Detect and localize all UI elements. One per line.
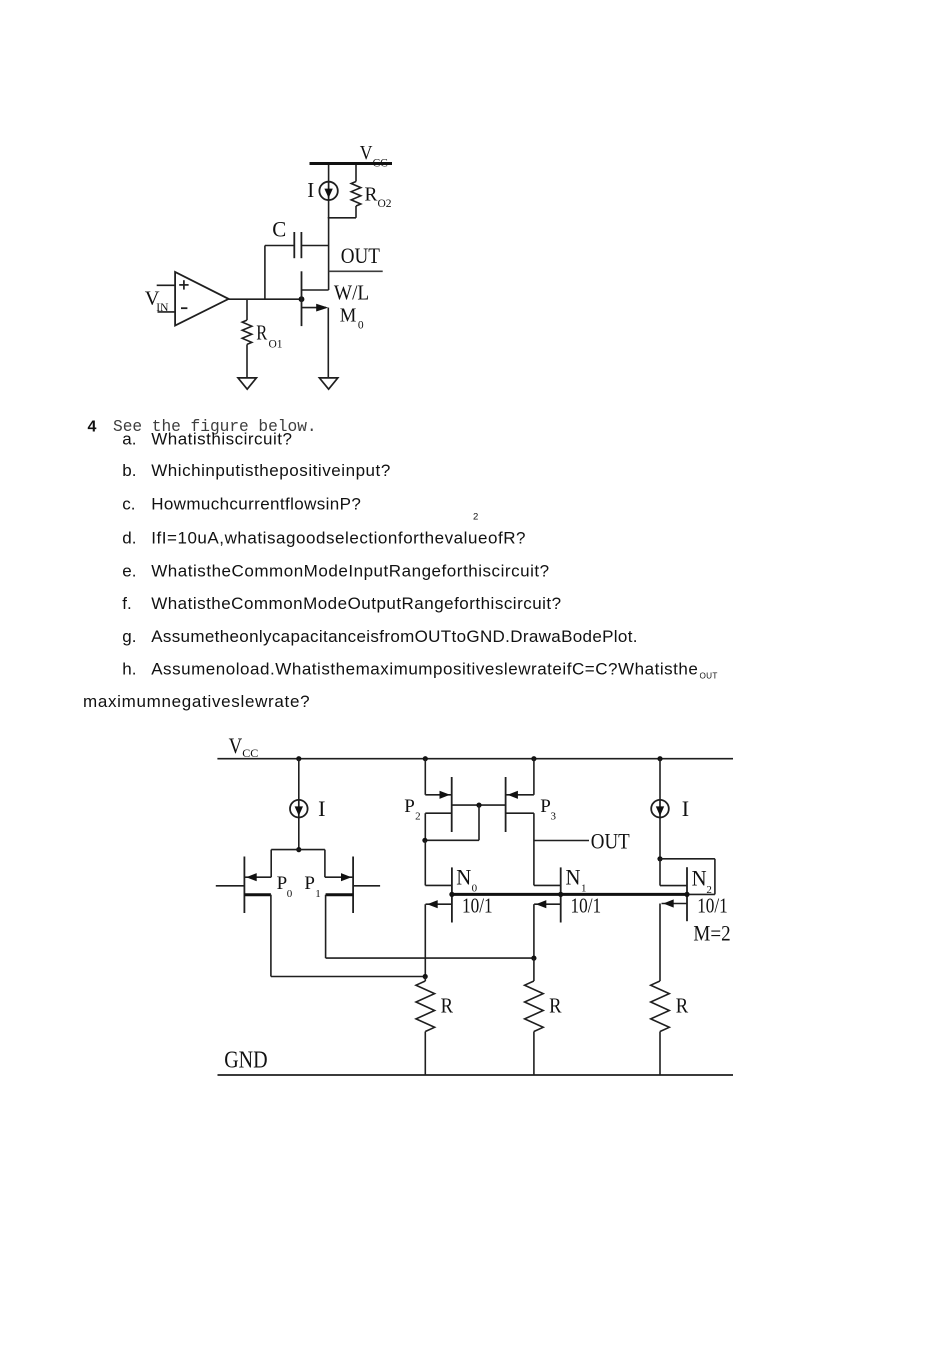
ground (below RO1): [238, 378, 256, 389]
svg-text:h.: h.: [122, 659, 136, 678]
transistor P1 channel bar: [352, 857, 354, 914]
svg-text:P: P: [540, 796, 551, 817]
node R1 top: [423, 974, 428, 979]
transistor M0 drain lead: [302, 289, 329, 291]
wire P2 P3 gate line: [452, 804, 506, 806]
op-amp U1 triangle: [175, 272, 229, 326]
transistor P0 drain bar: [244, 893, 271, 896]
wire op-amp output to gate of M0: [229, 298, 302, 300]
wire OUT (top circuit): [329, 270, 383, 272]
wire inverting input: [158, 311, 176, 313]
svg-text:0: 0: [358, 319, 364, 331]
current source I (left, bottom circuit): [290, 800, 308, 818]
resistor RO2: [351, 182, 361, 207]
svg-text:O2: O2: [378, 198, 392, 210]
transistor N0 channel bar: [451, 867, 453, 922]
svg-text:0: 0: [472, 883, 478, 895]
svg-text:WhatistheCommonModeOutputRange: WhatistheCommonModeOutputRangeforthiscir…: [151, 594, 561, 613]
svg-text:IfI=10uA,whatisagoodselectionf: IfI=10uA,whatisagoodselectionforthevalue…: [151, 528, 526, 547]
svg-text:Whatisthiscircuit?: Whatisthiscircuit?: [151, 429, 292, 448]
node on VCC rail above P3: [531, 756, 536, 761]
transistor N0 source lead with arrow: [426, 903, 452, 905]
svg-text:2: 2: [415, 811, 421, 823]
node gate tie of P2 P3: [476, 803, 481, 808]
wire N2 gate loop right: [714, 859, 716, 895]
transistor N1 source lead with arrow: [534, 903, 561, 905]
transistor P3 channel bar: [505, 777, 507, 832]
svg-text:I: I: [307, 178, 314, 202]
wire rail to left current source: [298, 759, 300, 801]
wire N1 drain lead: [534, 884, 561, 886]
resistor R2: [525, 981, 544, 1032]
node on VCC rail above left current source: [296, 756, 301, 761]
svg-text:R: R: [441, 994, 453, 1018]
transistor P3 drain lead: [506, 812, 534, 814]
svg-text:R: R: [676, 994, 688, 1018]
svg-text:R: R: [549, 994, 561, 1018]
svg-text:P: P: [404, 796, 415, 817]
svg-text:0: 0: [287, 888, 293, 900]
svg-text:C: C: [272, 217, 286, 242]
wire N2 drain lead: [660, 885, 687, 887]
op-amp plus input marker: [179, 284, 188, 286]
node N2 drain: [657, 856, 662, 861]
svg-text:M=2: M=2: [693, 921, 730, 946]
svg-text:a.: a.: [122, 429, 136, 448]
current source I (right, bottom circuit): [651, 800, 669, 818]
wire M0 source to ground: [327, 308, 329, 378]
resistor R3: [651, 981, 670, 1032]
wire tail to P0 source: [270, 850, 272, 878]
svg-text:HowmuchcurrentflowsinP?: HowmuchcurrentflowsinP?: [151, 495, 361, 514]
wire node X down to drain of M0: [328, 217, 330, 290]
svg-text:Whichinputisthepositiveinput?: Whichinputisthepositiveinput?: [151, 461, 391, 480]
svg-text:R: R: [365, 183, 379, 205]
transistor P0 channel bar: [243, 857, 245, 914]
transistor P1 source lead with arrow: [325, 876, 353, 878]
wire N2 gate loop top: [660, 858, 715, 860]
wire feedback branch down to op-amp output: [264, 246, 266, 300]
transistor P1 gate lead: [353, 885, 380, 887]
svg-text:WhatistheCommonModeInputRangef: WhatistheCommonModeInputRangeforthiscirc…: [151, 561, 549, 580]
wire non-inverting input: [157, 284, 175, 286]
svg-text:OUT: OUT: [700, 672, 718, 681]
wire capacitor left plate to feedback branch: [265, 245, 294, 247]
wire VCC rail to current source I: [328, 165, 330, 183]
ground (below M0): [319, 378, 337, 389]
wire rail to P2 source: [424, 759, 426, 795]
svg-text:CC: CC: [373, 158, 389, 170]
wire tail to P1 source: [324, 850, 326, 878]
resistor RO1: [242, 320, 252, 344]
svg-text:OUT: OUT: [341, 243, 381, 268]
svg-text:maximumnegativeslewrate?: maximumnegativeslewrate?: [83, 692, 310, 711]
svg-text:Assumenoload.Whatisthemaximump: Assumenoload.Whatisthemaximumpositivesle…: [151, 659, 698, 678]
node on VCC rail above P2: [423, 756, 428, 761]
svg-text:P: P: [277, 873, 288, 894]
svg-text:d.: d.: [122, 528, 136, 547]
ground rail GND: [218, 1074, 734, 1076]
transistor P0 source lead with arrow: [244, 876, 271, 878]
transistor M0 channel bar: [301, 271, 303, 326]
wire left current source to tail node: [298, 817, 300, 850]
svg-text:R: R: [256, 321, 267, 345]
svg-text:f.: f.: [122, 594, 131, 613]
node R2 top: [531, 956, 536, 961]
svg-text:W/L: W/L: [334, 280, 369, 304]
svg-text:10/1: 10/1: [697, 894, 728, 918]
current source I (top circuit): [319, 182, 337, 200]
node tail of differential pair: [296, 847, 301, 852]
op-amp minus input marker: [181, 307, 187, 309]
svg-text:b.: b.: [122, 461, 136, 480]
wire OUT (bottom circuit): [534, 840, 589, 842]
transistor P2 source lead with arrow: [425, 794, 451, 796]
node on VCC rail above right current source: [657, 756, 662, 761]
resistor R1: [416, 981, 435, 1032]
svg-text:2: 2: [473, 512, 478, 523]
svg-text:N: N: [566, 865, 581, 890]
svg-text:OUT: OUT: [591, 829, 630, 854]
wire N1 source down to node R2 top: [533, 904, 535, 958]
svg-text:1: 1: [315, 888, 321, 900]
svg-text:10/1: 10/1: [571, 894, 602, 918]
node bus at N0: [449, 892, 454, 897]
node gate of M0: [299, 296, 305, 302]
transistor M0 source lead with arrow: [302, 307, 327, 309]
svg-text:Assumetheonlycapacitanceisfrom: AssumetheonlycapacitanceisfromOUTtoGND.D…: [151, 627, 638, 646]
wire R1 top: [424, 977, 426, 982]
wire RO2 bottom to node X: [355, 206, 357, 218]
wire P2 drain down to drain node: [424, 813, 426, 840]
transistor N2 source lead with arrow: [662, 903, 688, 905]
wire N2 source down to R3 top: [659, 904, 661, 982]
svg-text:V: V: [229, 733, 243, 758]
node bus at N1: [558, 892, 563, 897]
svg-text:GND: GND: [224, 1048, 267, 1074]
wire N2 drain down: [659, 859, 661, 886]
power rail VCC (bottom circuit): [217, 758, 733, 760]
transistor P2 channel bar: [451, 777, 453, 832]
wire tail node connector: [271, 849, 325, 851]
transistor P1 drain bar: [326, 893, 354, 896]
wire P2 drain node down to N0 drain: [424, 840, 426, 885]
wire capacitor right plate to node X: [301, 245, 328, 247]
wire N0 source down to node R1 top: [424, 904, 426, 976]
wire R1 to GND rail: [424, 1032, 426, 1075]
wire output node to resistor RO1: [246, 299, 248, 320]
wire P1 drain to node R2 top: [326, 957, 534, 959]
wire RO1 to ground: [246, 344, 248, 378]
wire gate tie to P2 drain node: [425, 839, 479, 841]
svg-text:P: P: [304, 873, 315, 894]
node bus at N2: [684, 892, 689, 897]
svg-text:I: I: [318, 796, 325, 821]
gate bus of N0 N1 N2: [452, 893, 688, 896]
svg-text:N: N: [456, 865, 471, 890]
wire current source to node X: [328, 200, 330, 218]
svg-text:e.: e.: [122, 561, 136, 580]
svg-text:V: V: [360, 142, 373, 164]
svg-text:N: N: [692, 866, 707, 891]
svg-text:10/1: 10/1: [462, 894, 493, 918]
svg-text:O1: O1: [269, 338, 283, 350]
svg-text:c.: c.: [122, 495, 135, 514]
wire rail to P3 source: [533, 759, 535, 795]
svg-text:3: 3: [551, 811, 557, 823]
svg-text:1: 1: [581, 883, 587, 895]
transistor N2 channel bar: [686, 867, 688, 921]
wire VCC rail to resistor RO2: [355, 165, 357, 182]
wire right current source to N2 drain node: [659, 817, 661, 859]
transistor P3 source lead with arrow: [506, 794, 534, 796]
capacitor C plates: [293, 232, 295, 258]
node P2 drain (diode connection): [422, 838, 427, 843]
wire N0 drain lead: [425, 884, 452, 886]
wire P1 drain down: [325, 895, 327, 958]
wire gate tie down: [478, 805, 480, 840]
svg-text:g.: g.: [122, 627, 136, 646]
svg-text:I: I: [682, 796, 689, 821]
svg-text:IN: IN: [156, 302, 169, 314]
transistor P2 drain lead: [425, 812, 451, 814]
wire rail to right current source: [659, 759, 661, 801]
wire P0 drain to node R1 top: [271, 976, 425, 978]
wire R2 top: [533, 958, 535, 981]
transistor N1 channel bar: [560, 867, 562, 922]
svg-text:M: M: [340, 304, 357, 326]
svg-text:4: 4: [88, 419, 97, 436]
wire P0 drain down: [270, 895, 272, 977]
wire R2 to GND rail: [533, 1032, 535, 1075]
svg-text:CC: CC: [242, 746, 258, 760]
wire P3 drain down to OUT node: [533, 813, 535, 885]
wire R3 to GND rail: [659, 1032, 661, 1075]
power rail VCC (top circuit): [310, 162, 393, 165]
transistor P0 gate lead: [216, 885, 245, 887]
